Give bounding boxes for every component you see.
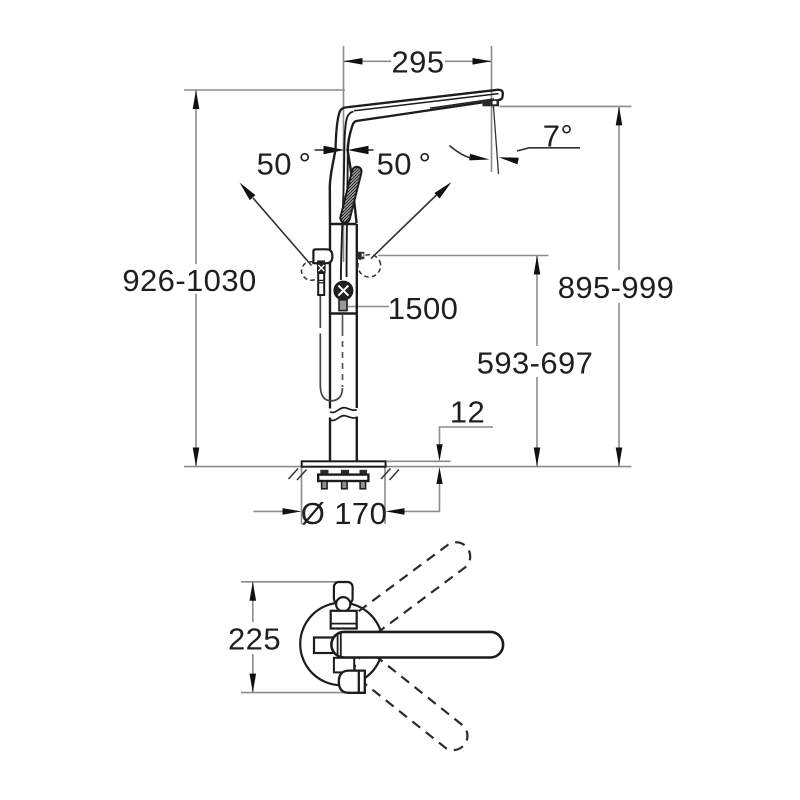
svg-text:295: 295 bbox=[392, 45, 445, 80]
floor line bbox=[184, 466, 632, 468]
base plate bbox=[302, 461, 386, 466]
aerator at spout tip bbox=[483, 101, 500, 107]
reference line mid (pivot height) bbox=[378, 255, 549, 257]
side knob right of column bbox=[357, 252, 364, 259]
arrowheads 593-697 bbox=[534, 256, 541, 275]
extension line 295 left bbox=[343, 46, 345, 262]
text white backings bbox=[120, 264, 259, 294]
dimension line 295 bbox=[344, 60, 392, 62]
svg-text:7°: 7° bbox=[543, 119, 573, 154]
arrowheads 225 bbox=[250, 582, 257, 601]
dashed lever position upper bbox=[354, 542, 470, 636]
svg-text:12: 12 bbox=[450, 395, 485, 430]
stem below 12 arrow bbox=[439, 483, 441, 512]
svg-text:895-999: 895-999 bbox=[558, 270, 675, 305]
svg-text:926-1030: 926-1030 bbox=[122, 263, 256, 298]
dimension tails dia 170 bbox=[254, 510, 287, 512]
7deg right leader with arrow bbox=[517, 148, 580, 151]
extension line 295 right bbox=[491, 46, 493, 172]
arrowheads 926-1030 bbox=[193, 90, 200, 109]
dimension line 225 bbox=[252, 582, 254, 622]
ball nut on hose bbox=[334, 282, 352, 300]
escutcheon circle (bottom view) bbox=[300, 603, 383, 686]
dimension line 895-999 bbox=[618, 106, 620, 466]
joint line mid column bbox=[330, 312, 357, 315]
arrowheads dia170 bbox=[283, 508, 302, 515]
hand shower hose outside column bbox=[320, 295, 342, 401]
reference line top-left (spout height) bbox=[184, 89, 345, 91]
svg-text:1500: 1500 bbox=[388, 291, 459, 326]
leader line 1500 bbox=[348, 306, 389, 308]
body outline below waist bbox=[330, 149, 357, 461]
dashed ellipse right (handshower swung) bbox=[354, 251, 384, 281]
arrowheads 12 bbox=[436, 444, 442, 461]
arrowheads 295 bbox=[344, 58, 363, 65]
solid lever (bottom view) bbox=[331, 632, 503, 658]
break squiggle on column bbox=[330, 408, 357, 421]
extension lines dia 170 bbox=[301, 467, 303, 524]
upper body block (bottom view) bbox=[331, 611, 357, 629]
spout inner wall lines bbox=[354, 94, 499, 111]
dimension line 926-1030 bbox=[195, 90, 197, 467]
50deg right leg bbox=[371, 194, 438, 259]
7deg left arc with arrow bbox=[450, 146, 471, 158]
extension of plate top bbox=[387, 460, 451, 462]
svg-text:225: 225 bbox=[228, 622, 281, 657]
lower body block (bottom view) bbox=[334, 658, 354, 673]
hand shower grip nut bbox=[317, 263, 326, 273]
arrowheads 895-999 bbox=[616, 106, 623, 125]
angle arrows at neck waist (50/50) bbox=[315, 149, 326, 151]
floor hatch marks bbox=[289, 469, 400, 481]
svg-text:Ø 170: Ø 170 bbox=[301, 496, 387, 531]
dimension line 593-697 bbox=[536, 256, 538, 467]
hand shower holder bbox=[313, 249, 332, 263]
dashed lever position lower bbox=[355, 654, 468, 750]
svg-text:50 °: 50 ° bbox=[257, 147, 312, 182]
spout tube outline bbox=[336, 90, 503, 151]
svg-text:50 °: 50 ° bbox=[377, 147, 432, 182]
mounting flange below floor bbox=[320, 470, 328, 475]
hose connector stub bbox=[339, 300, 347, 311]
hose tube inside neck bbox=[341, 112, 358, 281]
svg-text:593-697: 593-697 bbox=[477, 346, 594, 381]
reference line right (aerator height) bbox=[500, 105, 632, 107]
shower collar inside holder bbox=[317, 260, 325, 263]
handshower holder (bottom view) bbox=[339, 671, 365, 693]
dashed ellipse left (handshower swung) bbox=[299, 259, 323, 283]
hand shower handle shaft bbox=[318, 273, 324, 295]
leader line 12 bbox=[440, 427, 494, 445]
spout base (bottom view) bbox=[334, 582, 353, 604]
left square lug (bottom view) bbox=[314, 638, 333, 654]
50deg left leg bbox=[253, 198, 312, 266]
extension lines 225 bbox=[241, 581, 346, 583]
hose hidden line (dashed) in column bbox=[342, 315, 344, 336]
7deg tilted stream line bbox=[493, 104, 498, 174]
